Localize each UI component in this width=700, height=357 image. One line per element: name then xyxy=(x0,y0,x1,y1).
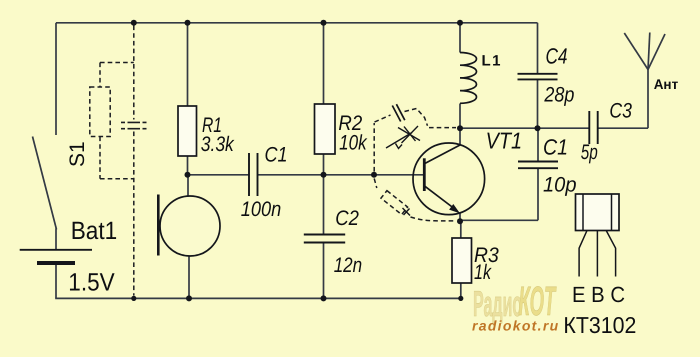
svg-text:VT1: VT1 xyxy=(486,128,522,154)
svg-text:Bat1: Bat1 xyxy=(71,217,118,245)
svg-text:1.5V: 1.5V xyxy=(68,269,115,297)
svg-text:C3: C3 xyxy=(609,100,632,123)
svg-text:Ант: Ант xyxy=(654,76,679,92)
svg-text:L1: L1 xyxy=(482,53,503,70)
svg-text:5p: 5p xyxy=(581,141,598,164)
svg-text:E B C: E B C xyxy=(572,282,625,307)
svg-text:1k: 1k xyxy=(474,261,492,284)
svg-text:C4: C4 xyxy=(546,44,568,69)
svg-text:10p: 10p xyxy=(543,174,577,197)
svg-text:12n: 12n xyxy=(334,254,363,277)
svg-text:C1: C1 xyxy=(543,135,568,160)
svg-text:100n: 100n xyxy=(241,198,281,221)
svg-text:КТ3102: КТ3102 xyxy=(563,312,636,338)
svg-text:radiokot.ru: radiokot.ru xyxy=(472,318,559,334)
svg-text:S1: S1 xyxy=(66,141,89,167)
svg-text:C1: C1 xyxy=(265,144,288,167)
svg-text:10k: 10k xyxy=(339,132,368,155)
svg-text:3.3k: 3.3k xyxy=(201,133,235,156)
svg-text:28p: 28p xyxy=(544,84,575,107)
svg-text:C2: C2 xyxy=(335,207,359,230)
